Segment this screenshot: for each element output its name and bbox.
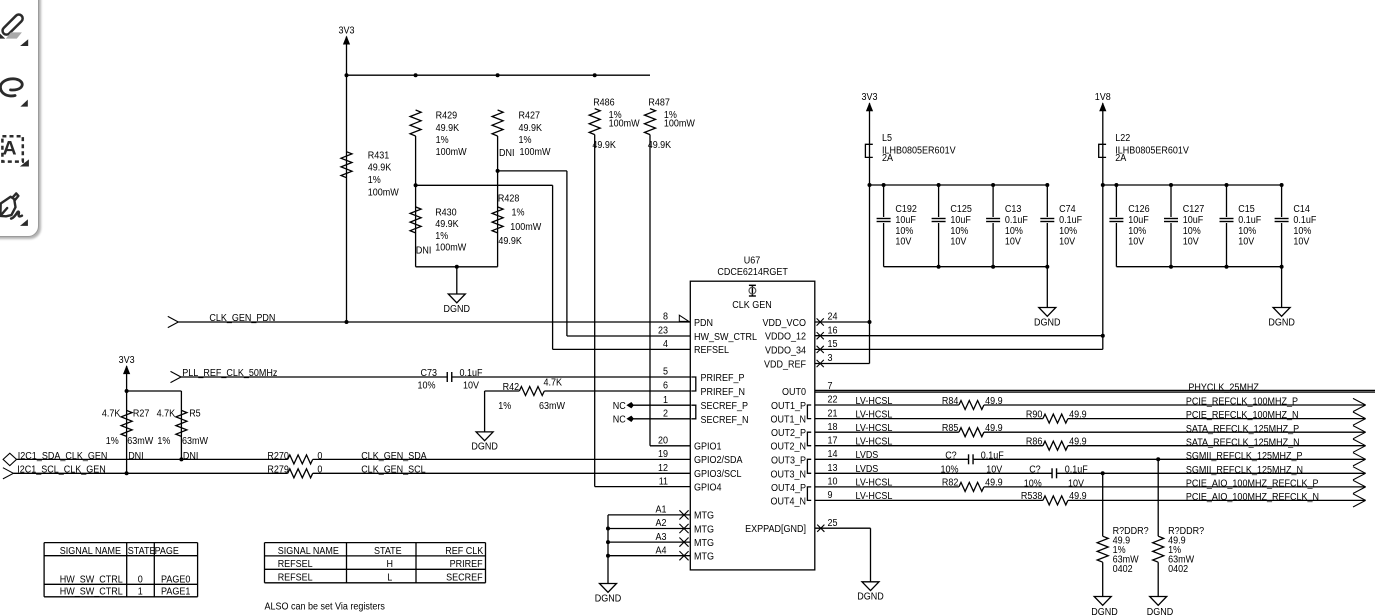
svg-text:1%: 1%	[157, 436, 170, 447]
svg-text:R90: R90	[1026, 409, 1043, 420]
svg-text:25: 25	[828, 518, 838, 529]
svg-text:DGND: DGND	[471, 442, 498, 453]
svg-text:C15: C15	[1238, 204, 1255, 215]
svg-text:C127: C127	[1183, 204, 1205, 215]
svg-text:DGND: DGND	[1091, 607, 1118, 615]
svg-text:OUT0: OUT0	[782, 387, 806, 398]
svg-text:4: 4	[663, 339, 668, 350]
svg-text:A: A	[3, 138, 17, 160]
svg-text:12: 12	[658, 463, 668, 474]
svg-text:49.9K: 49.9K	[436, 123, 460, 134]
svg-text:C74: C74	[1059, 204, 1076, 215]
svg-text:13: 13	[828, 463, 838, 474]
svg-text:10%: 10%	[418, 380, 436, 391]
svg-text:PAGE: PAGE	[155, 546, 180, 557]
svg-text:PCIE_AIO_100MHZ_REFCLK_P: PCIE_AIO_100MHZ_REFCLK_P	[1186, 479, 1319, 490]
svg-text:L22: L22	[1115, 133, 1130, 144]
svg-text:SECREF_P: SECREF_P	[701, 401, 749, 412]
svg-text:PDN: PDN	[694, 318, 713, 329]
svg-text:10%: 10%	[1128, 226, 1146, 237]
svg-text:R429: R429	[436, 111, 458, 122]
svg-text:17: 17	[828, 435, 838, 446]
svg-text:OUT1_N: OUT1_N	[771, 415, 807, 426]
svg-text:C?: C?	[945, 451, 957, 462]
svg-text:SATA_REFCLK_125MHZ_P: SATA_REFCLK_125MHZ_P	[1186, 424, 1299, 435]
svg-text:A4: A4	[656, 545, 667, 556]
svg-text:1%: 1%	[106, 436, 119, 447]
svg-text:CLK_GEN_PDN: CLK_GEN_PDN	[209, 313, 275, 324]
svg-text:0: 0	[317, 451, 322, 462]
svg-text:PRIREF_N: PRIREF_N	[701, 387, 746, 398]
svg-text:A3: A3	[656, 532, 667, 543]
svg-text:R86: R86	[1026, 437, 1043, 448]
svg-text:DNI: DNI	[416, 245, 432, 256]
svg-text:10%: 10%	[1238, 226, 1256, 237]
svg-text:PCIE_REFCLK_100MHZ_N: PCIE_REFCLK_100MHZ_N	[1186, 410, 1299, 421]
svg-text:R85: R85	[942, 423, 959, 434]
svg-text:L: L	[387, 572, 392, 583]
svg-text:3: 3	[828, 353, 833, 364]
svg-text:DGND: DGND	[1034, 317, 1061, 328]
svg-text:63mW: 63mW	[539, 401, 565, 412]
svg-text:49.9K: 49.9K	[592, 140, 616, 151]
svg-text:0402: 0402	[1168, 564, 1188, 575]
svg-text:DNI: DNI	[499, 148, 515, 159]
svg-text:49.9K: 49.9K	[498, 236, 522, 247]
svg-text:5: 5	[663, 367, 668, 378]
svg-text:OUT4_P: OUT4_P	[771, 483, 806, 494]
svg-text:8: 8	[663, 312, 668, 323]
svg-text:SECREF_N: SECREF_N	[701, 415, 749, 426]
svg-text:49.9: 49.9	[985, 478, 1003, 489]
svg-text:0.1uF: 0.1uF	[1238, 215, 1261, 226]
svg-text:0.1uF: 0.1uF	[460, 368, 483, 379]
svg-text:R427: R427	[519, 111, 541, 122]
svg-text:PRIREF: PRIREF	[450, 559, 483, 570]
svg-text:49.9K: 49.9K	[435, 219, 459, 230]
svg-text:10%: 10%	[1005, 226, 1023, 237]
svg-text:I2C1_SCL_CLK_GEN: I2C1_SCL_CLK_GEN	[17, 465, 106, 476]
svg-text:PCIE_REFCLK_100MHZ_P: PCIE_REFCLK_100MHZ_P	[1186, 397, 1298, 408]
svg-text:10uF: 10uF	[895, 215, 916, 226]
svg-text:10V: 10V	[986, 465, 1002, 476]
svg-text:CDCE6214RGET: CDCE6214RGET	[717, 267, 788, 278]
svg-text:4.7K: 4.7K	[102, 409, 121, 420]
svg-text:ILHB0805ER601V: ILHB0805ER601V	[1115, 145, 1189, 156]
svg-text:OUT1_P: OUT1_P	[771, 401, 806, 412]
svg-text:PLL_REF_CLK_50MHz: PLL_REF_CLK_50MHz	[182, 368, 277, 379]
svg-text:STATE: STATE	[374, 546, 402, 557]
svg-text:LV-HCSL: LV-HCSL	[856, 423, 893, 434]
svg-text:16: 16	[828, 325, 838, 336]
svg-text:3V3: 3V3	[339, 25, 355, 36]
svg-text:SIGNAL NAME: SIGNAL NAME	[278, 546, 339, 557]
svg-text:R538: R538	[1021, 491, 1043, 502]
svg-text:REFSEL: REFSEL	[278, 572, 313, 583]
svg-text:14: 14	[828, 449, 838, 460]
svg-text:49.9: 49.9	[985, 396, 1003, 407]
svg-text:0.1uF: 0.1uF	[1065, 465, 1088, 476]
svg-text:21: 21	[828, 408, 838, 419]
svg-text:VDD_VCO: VDD_VCO	[763, 318, 807, 329]
svg-text:10V: 10V	[1183, 237, 1199, 248]
svg-text:CLK_GEN_SCL: CLK_GEN_SCL	[361, 465, 426, 476]
svg-text:100mW: 100mW	[368, 187, 400, 198]
svg-text:C192: C192	[895, 204, 917, 215]
svg-text:63mW: 63mW	[182, 436, 208, 447]
svg-text:SECREF: SECREF	[446, 572, 483, 583]
svg-text:R486: R486	[593, 98, 615, 109]
svg-text:24: 24	[828, 312, 838, 323]
svg-text:MTG: MTG	[694, 511, 714, 522]
svg-text:DGND: DGND	[1147, 607, 1174, 615]
svg-text:10V: 10V	[1059, 237, 1075, 248]
svg-text:18: 18	[828, 422, 838, 433]
svg-text:100mW: 100mW	[435, 242, 467, 253]
svg-text:LV-HCSL: LV-HCSL	[856, 491, 893, 502]
svg-text:PCIE_AIO_100MHZ_REFCLK_N: PCIE_AIO_100MHZ_REFCLK_N	[1186, 492, 1319, 503]
svg-text:LV-HCSL: LV-HCSL	[856, 409, 893, 420]
svg-text:REFSEL: REFSEL	[278, 559, 313, 570]
svg-text:6: 6	[663, 381, 668, 392]
svg-text:10%: 10%	[895, 226, 913, 237]
svg-text:SATA_REFCLK_125MHZ_N: SATA_REFCLK_125MHZ_N	[1186, 437, 1300, 448]
svg-text:SIGNAL NAME: SIGNAL NAME	[60, 546, 121, 557]
svg-text:R82: R82	[942, 478, 959, 489]
svg-text:23: 23	[658, 326, 668, 337]
svg-text:10V: 10V	[895, 237, 911, 248]
svg-text:C125: C125	[950, 204, 972, 215]
svg-text:0.1uF: 0.1uF	[1293, 215, 1316, 226]
svg-text:49.9: 49.9	[1069, 491, 1087, 502]
svg-text:REF CLK: REF CLK	[445, 546, 483, 557]
svg-text:HW_SW_CTRL: HW_SW_CTRL	[60, 587, 123, 598]
svg-text:LVDS: LVDS	[856, 464, 879, 475]
svg-text:OUT4_N: OUT4_N	[771, 496, 807, 507]
svg-text:11: 11	[659, 476, 669, 487]
svg-text:PAGE1: PAGE1	[161, 587, 191, 598]
svg-text:15: 15	[828, 339, 838, 350]
svg-text:A2: A2	[656, 518, 667, 529]
svg-text:19: 19	[658, 449, 668, 460]
svg-text:100mW: 100mW	[510, 222, 542, 233]
svg-text:R27: R27	[133, 409, 150, 420]
svg-text:10V: 10V	[1128, 237, 1144, 248]
svg-text:1: 1	[138, 587, 143, 598]
svg-text:0.1uF: 0.1uF	[981, 451, 1004, 462]
svg-text:ALSO can be set Via registers: ALSO can be set Via registers	[265, 601, 385, 612]
svg-text:OUT3_P: OUT3_P	[771, 455, 806, 466]
svg-text:R42: R42	[503, 382, 520, 393]
svg-text:22: 22	[828, 395, 838, 406]
svg-text:L5: L5	[882, 133, 892, 144]
svg-text:LV-HCSL: LV-HCSL	[856, 396, 893, 407]
svg-text:10%: 10%	[1024, 478, 1042, 489]
svg-text:9: 9	[828, 490, 833, 501]
svg-text:2A: 2A	[882, 153, 893, 164]
svg-text:49.9: 49.9	[985, 423, 1003, 434]
svg-text:DGND: DGND	[1268, 317, 1295, 328]
svg-text:10%: 10%	[1293, 226, 1311, 237]
svg-text:20: 20	[658, 436, 668, 447]
svg-text:CLK GEN: CLK GEN	[732, 300, 772, 311]
svg-text:R84: R84	[942, 396, 959, 407]
svg-text:49.9: 49.9	[1069, 437, 1087, 448]
svg-text:GPIO2/SDA: GPIO2/SDA	[694, 455, 743, 466]
svg-text:100mW: 100mW	[520, 147, 552, 158]
svg-text:VDDO_34: VDDO_34	[765, 345, 806, 356]
svg-text:0: 0	[138, 574, 143, 585]
svg-text:2: 2	[663, 409, 668, 420]
svg-text:10V: 10V	[1238, 237, 1254, 248]
svg-text:10uF: 10uF	[1128, 215, 1149, 226]
svg-text:ILHB0805ER601V: ILHB0805ER601V	[882, 145, 956, 156]
svg-text:4.7K: 4.7K	[157, 409, 176, 420]
svg-text:R5: R5	[189, 409, 201, 420]
svg-text:PRIREF_P: PRIREF_P	[701, 373, 745, 384]
svg-text:2A: 2A	[1115, 153, 1126, 164]
svg-text:10%: 10%	[1183, 226, 1201, 237]
svg-text:C73: C73	[421, 368, 438, 379]
svg-text:10uF: 10uF	[1183, 215, 1204, 226]
svg-text:100mW: 100mW	[664, 119, 696, 130]
svg-text:DGND: DGND	[857, 592, 884, 603]
svg-text:100mW: 100mW	[609, 119, 641, 130]
svg-text:MTG: MTG	[694, 538, 714, 549]
svg-text:49.9K: 49.9K	[368, 163, 392, 174]
svg-text:10V: 10V	[1068, 478, 1084, 489]
svg-text:C126: C126	[1128, 204, 1150, 215]
svg-text:3V3: 3V3	[119, 355, 135, 366]
svg-text:PAGE0: PAGE0	[161, 574, 191, 585]
svg-text:NC: NC	[613, 401, 626, 412]
svg-text:0: 0	[317, 465, 322, 476]
svg-text:10V: 10V	[950, 237, 966, 248]
svg-text:LV-HCSL: LV-HCSL	[856, 437, 893, 448]
svg-text:1%: 1%	[368, 175, 381, 186]
svg-text:10%: 10%	[941, 465, 959, 476]
svg-text:1%: 1%	[436, 135, 449, 146]
svg-text:LVDS: LVDS	[856, 450, 879, 461]
svg-text:GPIO3/SCL: GPIO3/SCL	[694, 469, 742, 480]
svg-text:LV-HCSL: LV-HCSL	[856, 478, 893, 489]
svg-text:OUT2_N: OUT2_N	[771, 442, 807, 453]
svg-text:SGMII_REFCLK_125MHZ_P: SGMII_REFCLK_125MHZ_P	[1186, 451, 1303, 462]
svg-text:NC: NC	[613, 415, 626, 426]
svg-text:H: H	[387, 559, 394, 570]
svg-text:63mW: 63mW	[127, 436, 153, 447]
svg-text:10V: 10V	[1293, 237, 1309, 248]
svg-text:A1: A1	[656, 505, 667, 516]
svg-text:3V3: 3V3	[862, 92, 878, 103]
svg-text:C?: C?	[1029, 465, 1041, 476]
svg-text:100mW: 100mW	[436, 147, 468, 158]
svg-text:1%: 1%	[512, 208, 525, 219]
svg-text:R428: R428	[498, 193, 520, 204]
svg-text:CLK_GEN_SDA: CLK_GEN_SDA	[361, 451, 427, 462]
svg-text:GPIO1: GPIO1	[694, 442, 722, 453]
svg-text:MTG: MTG	[694, 524, 714, 535]
svg-text:REFSEL: REFSEL	[694, 345, 729, 356]
svg-text:DNI: DNI	[128, 451, 144, 462]
svg-text:0402: 0402	[1113, 564, 1133, 575]
svg-text:HW_SW_CTRL: HW_SW_CTRL	[60, 574, 123, 585]
svg-text:GPIO4: GPIO4	[694, 482, 722, 493]
svg-text:1V8: 1V8	[1095, 92, 1111, 103]
svg-text:U67: U67	[744, 256, 761, 267]
svg-text:EXPPAD[GND]: EXPPAD[GND]	[745, 524, 806, 535]
svg-text:10%: 10%	[1059, 226, 1077, 237]
svg-text:C13: C13	[1005, 204, 1022, 215]
svg-text:10V: 10V	[463, 380, 479, 391]
svg-text:I2C1_SDA_CLK_GEN: I2C1_SDA_CLK_GEN	[18, 451, 108, 462]
svg-text:1%: 1%	[498, 401, 511, 412]
svg-text:0.1uF: 0.1uF	[1005, 215, 1028, 226]
svg-text:10V: 10V	[1005, 237, 1021, 248]
svg-text:10%: 10%	[950, 226, 968, 237]
svg-text:VDDO_12: VDDO_12	[765, 332, 806, 343]
svg-text:R430: R430	[435, 208, 457, 219]
svg-text:DGND: DGND	[595, 593, 622, 604]
svg-text:49.9K: 49.9K	[648, 140, 672, 151]
svg-text:OUT2_P: OUT2_P	[771, 428, 806, 439]
svg-text:R270: R270	[267, 451, 289, 462]
svg-text:49.9K: 49.9K	[519, 123, 543, 134]
svg-text:STATE: STATE	[128, 546, 156, 557]
svg-text:SGMII_REFCLK_125MHZ_N: SGMII_REFCLK_125MHZ_N	[1186, 465, 1303, 476]
svg-text:OUT3_N: OUT3_N	[771, 469, 807, 480]
svg-text:DGND: DGND	[444, 304, 471, 315]
svg-text:1%: 1%	[435, 231, 448, 242]
svg-text:10uF: 10uF	[950, 215, 971, 226]
svg-text:PHYCLK_25MHZ: PHYCLK_25MHZ	[1188, 382, 1259, 393]
svg-text:0.1uF: 0.1uF	[1059, 215, 1082, 226]
svg-text:VDD_REF: VDD_REF	[764, 360, 806, 371]
svg-text:R279: R279	[267, 465, 289, 476]
svg-text:1: 1	[663, 395, 668, 406]
svg-text:4.7K: 4.7K	[544, 377, 563, 388]
svg-text:R487: R487	[648, 98, 670, 109]
svg-text:R431: R431	[368, 150, 390, 161]
svg-text:HW_SW_CTRL: HW_SW_CTRL	[694, 332, 757, 343]
svg-text:DNI: DNI	[183, 451, 199, 462]
svg-text:1%: 1%	[519, 135, 532, 146]
svg-text:C14: C14	[1293, 204, 1310, 215]
svg-text:49.9: 49.9	[1069, 409, 1087, 420]
svg-text:MTG: MTG	[694, 552, 714, 563]
svg-text:10: 10	[828, 477, 838, 488]
